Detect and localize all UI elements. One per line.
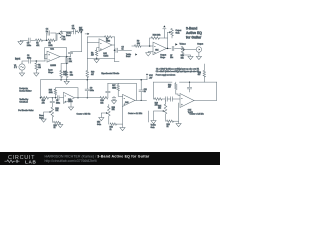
- wire MFB4 top edge: [154, 81, 217, 83]
- wire pot bottom ground: [183, 54, 191, 57]
- svg-text:Gain: Gain: [151, 127, 155, 129]
- wire R26 to gnd: [174, 120, 179, 122]
- wire C11 riser: [140, 80, 142, 101]
- label V1 1V: [14, 65, 18, 69]
- svg-text:−: −: [181, 98, 182, 100]
- capacitor C8: [57, 96, 59, 100]
- resistor R4: [36, 39, 43, 42]
- net flag arrow mid: [135, 53, 137, 55]
- svg-text:4k7: 4k7: [168, 87, 171, 89]
- capacitor C11: [139, 90, 143, 92]
- label C11 1u: [144, 89, 147, 93]
- label R9 10k: [137, 41, 140, 45]
- svg-text:10k: 10k: [100, 102, 103, 104]
- ground OA4 plus: [146, 53, 151, 56]
- svg-text:Stage: Stage: [48, 71, 53, 74]
- label C3 100n: [27, 43, 31, 47]
- wire MFB1 bias riser: [86, 58, 88, 80]
- svg-text:R10 100k: R10 100k: [153, 35, 161, 37]
- wire trim3 riser: [165, 101, 167, 105]
- ground port: [196, 56, 201, 59]
- svg-text:10k: 10k: [69, 61, 72, 63]
- wire R1 to ground: [35, 70, 37, 73]
- node OA4 out: [167, 48, 169, 50]
- wire trim1 riser: [51, 98, 53, 107]
- svg-text:10n: 10n: [72, 28, 75, 30]
- svg-text:100n: 100n: [56, 102, 60, 104]
- resistor R9 sum: [135, 45, 142, 48]
- svg-text:10k: 10k: [112, 109, 115, 111]
- label net Volume: [175, 43, 186, 45]
- wire MFB1 left edge: [86, 37, 88, 58]
- resistor R24: [110, 123, 117, 125]
- resistor R2: [65, 58, 68, 64]
- wire riser to treble row: [71, 32, 82, 57]
- label C7 10u: [170, 55, 173, 59]
- node divider mid: [66, 63, 67, 64]
- label R2 10k: [69, 59, 72, 63]
- label R26 1k: [167, 124, 170, 128]
- label R20 4k7: [198, 72, 201, 76]
- wire C7 to pot: [175, 47, 183, 49]
- wire V1 to ground: [21, 70, 23, 73]
- ground mid wiper: [99, 118, 104, 121]
- wire MFB1 bottom edge: [87, 57, 114, 59]
- svg-text:+: +: [124, 104, 125, 106]
- op-amp OA3a: [64, 92, 75, 103]
- svg-text:1k: 1k: [167, 126, 169, 128]
- label R16 10k: [100, 100, 103, 104]
- svg-text:1u: 1u: [144, 91, 146, 93]
- wire C12a drop: [113, 96, 115, 100]
- svg-text:Center = 1.1 kHz: Center = 1.1 kHz: [128, 112, 142, 115]
- svg-text:OA3: OA3: [125, 101, 128, 104]
- note verified by: [19, 98, 28, 103]
- wire U4 feedback left: [150, 38, 168, 48]
- potentiometer R12 volume: [181, 46, 184, 53]
- op-amp OA4 output: [153, 42, 167, 55]
- wire C9 riser: [86, 80, 88, 98]
- potentiometer R25 treble gain: [164, 104, 167, 121]
- label C4: [46, 29, 48, 33]
- arrow bass wiper: [44, 111, 52, 119]
- label Treble Gain: [151, 124, 156, 129]
- svg-text:Experimental Circuits: Experimental Circuits: [101, 72, 119, 75]
- potentiometer R6 treble: [60, 31, 63, 40]
- capacitor C15: [50, 101, 54, 103]
- net flag bus right: [146, 73, 154, 79]
- node C9 out: [87, 97, 88, 98]
- svg-text:HARRISON RICHTER (Karlee) / 3-: HARRISON RICHTER (Karlee) / 3-Band Activ…: [45, 155, 150, 159]
- svg-text:10k: 10k: [158, 108, 161, 110]
- label center mid: [128, 112, 142, 115]
- source V1: [19, 64, 25, 70]
- svg-text:TL072: TL072: [103, 55, 108, 57]
- node MFB2 in: [40, 97, 42, 99]
- svg-text:Power supply not shown: Power supply not shown: [156, 73, 175, 76]
- svg-text:C2 = 10nF (treble boost EQ); i: C2 = 10nF (treble boost EQ); input bypas…: [156, 70, 199, 73]
- resistor R3: [65, 71, 68, 78]
- svg-text:1u: 1u: [122, 49, 124, 51]
- wire sum node: [132, 45, 153, 47]
- capacitor C7 output: [172, 46, 174, 50]
- wire MFB1 bottom exit: [115, 61, 120, 63]
- op-amp OA5: [180, 94, 194, 108]
- wire bus: [41, 79, 148, 81]
- capacitor C12a: [112, 98, 116, 100]
- wire OA1 out: [60, 56, 71, 58]
- node buffer out: [66, 56, 68, 58]
- title Active EQ: [186, 31, 202, 35]
- svg-text:OA1: OA1: [50, 48, 54, 51]
- resistor R29 bias: [86, 71, 89, 78]
- wire R1 stem: [35, 61, 37, 63]
- arrow mid wiper: [101, 112, 107, 117]
- svg-text:1k: 1k: [54, 127, 56, 129]
- svg-text:LAB: LAB: [25, 159, 37, 164]
- svg-text:47k: 47k: [42, 102, 45, 104]
- ground below R1: [34, 73, 39, 76]
- resistor R17 riser: [117, 83, 123, 96]
- wire minus run: [176, 94, 180, 95]
- footer attribution text: [45, 155, 150, 164]
- svg-text:Output: Output: [197, 43, 203, 46]
- capacitor C6 out: [116, 48, 118, 52]
- capacitor C3: [29, 38, 31, 42]
- net flag arrow treble: [85, 33, 89, 35]
- svg-text:Center = 310 Hz: Center = 310 Hz: [77, 113, 91, 116]
- label R4 47k: [36, 43, 39, 47]
- svg-text:10k: 10k: [137, 43, 140, 45]
- capacitor C14: [187, 87, 191, 89]
- label OA3b TL072: [125, 101, 128, 104]
- label C5 10n: [72, 26, 75, 30]
- label OA5 TL072: [188, 109, 193, 114]
- label OA3a: [68, 98, 73, 103]
- svg-text:−: −: [49, 59, 50, 61]
- node MFB1 out: [114, 50, 116, 52]
- node A junction: [36, 60, 38, 62]
- wire MFB1 out exit: [115, 49, 132, 51]
- wire MFB1 top edge: [87, 36, 114, 38]
- wire R24 to gnd: [117, 123, 123, 125]
- svg-text:10k: 10k: [55, 110, 58, 112]
- svg-text:1 V: 1 V: [14, 67, 18, 69]
- label R25 10k: [158, 105, 161, 109]
- wire to treble pot wiper: [55, 33, 59, 40]
- supply flag VCC: [163, 25, 166, 38]
- ground treble wiper: [151, 121, 156, 124]
- svg-text:4k7: 4k7: [91, 74, 94, 76]
- svg-text:4k7: 4k7: [91, 55, 94, 57]
- op-amp OA3b: [123, 94, 136, 106]
- wire OA2 plus stub: [97, 48, 99, 50]
- label R5 100k: [48, 43, 52, 47]
- svg-text:100k: 100k: [63, 74, 67, 76]
- svg-text:−: −: [154, 46, 155, 48]
- label R1 1M: [38, 65, 41, 69]
- svg-text:100n: 100n: [27, 45, 31, 47]
- svg-text:4k7: 4k7: [198, 74, 201, 76]
- wire OA4 plus: [148, 52, 153, 53]
- wire treble row left: [21, 39, 36, 41]
- ground MFB1: [94, 58, 99, 62]
- wire R19 to caps: [162, 98, 180, 100]
- label R24 1k: [110, 127, 113, 131]
- svg-text:100k: 100k: [79, 30, 83, 32]
- node label Input: [15, 57, 20, 60]
- label R29 4k7: [91, 72, 94, 76]
- node bus C11: [140, 79, 142, 81]
- resistor R7 feedback: [105, 36, 113, 38]
- resistor R15 vertical: [54, 89, 56, 95]
- svg-text:100k: 100k: [112, 87, 116, 89]
- resistor R16: [100, 97, 108, 100]
- label C9 100n: [90, 88, 94, 92]
- op-amp OA1 buffer: [47, 51, 60, 62]
- resistor R18 top: [175, 82, 177, 94]
- svg-text:for Guitar: for Guitar: [186, 36, 202, 40]
- svg-text:100n: 100n: [90, 90, 94, 92]
- svg-text:+9V: +9V: [149, 77, 153, 79]
- svg-text:1M: 1M: [38, 67, 41, 69]
- wire trim2 riser: [108, 105, 110, 107]
- wire bias branch: [61, 64, 67, 80]
- svg-text:Stage: Stage: [160, 56, 165, 59]
- wire divider stem: [66, 57, 68, 80]
- capacitor C4 parallel: [48, 31, 50, 35]
- svg-text:For Electric Guitar: For Electric Guitar: [18, 109, 34, 112]
- svg-text:Center = 3.2 kHz: Center = 3.2 kHz: [190, 113, 204, 116]
- svg-text:Active EQ: Active EQ: [186, 31, 202, 35]
- potentiometer R11 gain: [171, 29, 174, 39]
- svg-text:1k: 1k: [110, 129, 112, 131]
- svg-text:+: +: [65, 101, 66, 103]
- wire feedback loop OA1: [45, 48, 67, 59]
- wire MFB3 top edge: [108, 82, 136, 84]
- label OA2 LM358: [103, 52, 108, 57]
- node bus R29: [87, 79, 89, 81]
- port Output circle: [196, 47, 201, 52]
- label R21 10k: [55, 108, 58, 112]
- node R8 bottom: [96, 58, 98, 60]
- wire trim3 vertical: [178, 103, 180, 124]
- node OA5 fb: [189, 82, 190, 83]
- node treble out: [81, 31, 82, 32]
- svg-text:OA4: OA4: [155, 48, 158, 51]
- label Mid Gain: [97, 122, 101, 126]
- wire MFB2 bottom lead: [41, 97, 64, 99]
- label R6 1M: [63, 36, 66, 40]
- capacitor C12: [166, 97, 168, 101]
- node C11 riser: [141, 100, 142, 101]
- capacitor C1: [29, 59, 31, 63]
- resistor R8 vertical: [95, 50, 97, 56]
- wire to buffer +: [45, 54, 47, 61]
- op-amp OA2: [99, 39, 112, 51]
- svg-text:10k: 10k: [70, 74, 73, 76]
- arrow treble wiper: [154, 110, 165, 120]
- wire MFB2 left edge: [40, 80, 42, 98]
- capacitor C13: [171, 97, 173, 101]
- label R17 100k: [112, 85, 116, 89]
- wire MFB1 right edge: [114, 37, 116, 62]
- svg-text:http://circuitlab.com/c37766t8: http://circuitlab.com/c37766t82br9/: [45, 159, 98, 163]
- label R13 47k: [42, 100, 45, 104]
- svg-text:CircuitLab: CircuitLab: [19, 101, 28, 104]
- node OA3a out: [77, 97, 78, 98]
- note design by: [19, 88, 31, 92]
- resistor R20 vertical: [203, 64, 205, 82]
- ground C12a: [111, 101, 116, 104]
- resistor R1: [35, 63, 38, 70]
- svg-text:47k: 47k: [36, 45, 39, 47]
- wire MFB3 right edge: [135, 83, 137, 100]
- svg-text:Band: Band: [66, 35, 70, 37]
- svg-text:10u: 10u: [170, 57, 173, 59]
- title for Guitar: [186, 36, 202, 40]
- resistor R13: [41, 97, 49, 100]
- potentiometer R23 mid gain: [108, 106, 111, 124]
- label R18 4k7: [168, 84, 171, 88]
- label OA1 bottom: [50, 65, 56, 67]
- label Output port: [197, 43, 203, 46]
- ground bass wiper: [41, 119, 46, 122]
- label center bass: [77, 113, 91, 116]
- svg-text:100k: 100k: [48, 45, 52, 47]
- resistor R10 feedback: [151, 37, 159, 40]
- wire treble row right: [62, 30, 77, 33]
- svg-text:+: +: [154, 52, 155, 54]
- label Treble Band: [66, 32, 71, 37]
- svg-text:1M: 1M: [63, 39, 66, 41]
- label R27 100k: [79, 27, 83, 31]
- arrow gain wiper: [168, 31, 172, 38]
- node trim1: [52, 97, 53, 98]
- wire OA5 out: [194, 82, 217, 100]
- wire MFB1 minus stub: [87, 41, 99, 43]
- ground below V1: [19, 73, 24, 76]
- node R15 bottom: [55, 97, 56, 98]
- wire stub mid: [148, 111, 150, 122]
- svg-text:+: +: [49, 54, 50, 56]
- wire OA3a plus ground: [70, 100, 72, 107]
- wire R4 to R5: [43, 39, 49, 41]
- label net treble: [126, 54, 131, 58]
- svg-text:LM358: LM358: [50, 65, 56, 67]
- notes block: [156, 67, 199, 76]
- label OA1 top: [50, 48, 54, 51]
- label R23 10k: [112, 107, 115, 111]
- ground trim3: [176, 124, 181, 127]
- label Bass Gain: [39, 115, 43, 119]
- wire V1 top: [22, 61, 28, 64]
- ground volume: [188, 56, 193, 59]
- wire port ground: [198, 52, 200, 56]
- label OA4: [155, 48, 158, 51]
- svg-text:−: −: [65, 96, 66, 98]
- wire MFB2 feedback: [55, 88, 78, 98]
- wire C14 riser: [189, 82, 191, 92]
- wire OA3a out: [75, 97, 101, 99]
- svg-text:3-Band: 3-Band: [186, 27, 197, 31]
- label Output Stage: [160, 54, 166, 59]
- svg-text:C1 = 100nF (soft/bass cut EQ);: C1 = 100nF (soft/bass cut EQ); input cap…: [156, 67, 199, 70]
- label R15 100k: [49, 90, 53, 94]
- label R7 100k: [106, 38, 110, 42]
- svg-text:Korrus Richter: Korrus Richter: [19, 89, 31, 92]
- footer bar: [0, 152, 220, 165]
- svg-text:Volume: Volume: [180, 44, 186, 46]
- resistor R19: [155, 98, 163, 101]
- svg-text:−: −: [100, 43, 101, 45]
- svg-text:LM358: LM358: [68, 101, 73, 103]
- ground trim2: [120, 128, 125, 131]
- wire parallel cap loop: [47, 33, 57, 40]
- label center treble: [190, 113, 204, 116]
- svg-text:Gain: Gain: [176, 32, 180, 34]
- note for electric guitar: [18, 109, 34, 112]
- label C1 100n: [27, 55, 31, 59]
- wire R22 gnd: [59, 122, 61, 124]
- capacitor C2 riser: [68, 52, 72, 54]
- wire MFB3 left edge: [107, 83, 109, 98]
- title 3-Band: [186, 27, 197, 31]
- arrow treble pot wiper: [59, 32, 61, 34]
- label R8 4k7: [91, 52, 94, 56]
- resistor R27 row: [77, 31, 82, 33]
- schematic canvas: [0, 0, 220, 165]
- ground treble left: [18, 40, 23, 45]
- svg-text:10k: 10k: [181, 57, 184, 59]
- resistor R28 bias: [60, 71, 63, 78]
- wire OA4 out: [167, 47, 172, 49]
- node treble parallel: [46, 39, 48, 41]
- wire MFB4 left edge: [154, 82, 155, 99]
- label C6 1u: [122, 46, 124, 50]
- svg-text:Gain: Gain: [97, 124, 101, 126]
- svg-text:+: +: [181, 104, 182, 106]
- label R19 47k: [155, 102, 158, 106]
- circuitlab logo: [5, 155, 37, 165]
- node R3 bus: [66, 79, 67, 80]
- resistor R22: [54, 121, 61, 123]
- wire C1 to R1 node: [31, 60, 45, 62]
- node bus R28: [60, 79, 62, 81]
- ground trim1: [58, 124, 63, 127]
- label R3 10k: [70, 72, 73, 76]
- label C8 100n: [56, 100, 60, 104]
- label Input Stage: [48, 69, 53, 74]
- resistor R5: [48, 39, 55, 42]
- node summing: [149, 45, 151, 47]
- svg-text:Input: Input: [15, 57, 20, 60]
- svg-text:−: −: [124, 98, 125, 100]
- svg-text:100n: 100n: [27, 58, 31, 60]
- label Output Gain pot: [176, 29, 182, 34]
- resistor R26: [167, 120, 174, 122]
- label R22 1k: [54, 125, 57, 129]
- svg-text:Gain: Gain: [39, 117, 43, 119]
- capacitor C10: [106, 91, 110, 93]
- capacitor C9: [85, 89, 89, 91]
- svg-text:+: +: [100, 48, 101, 50]
- capacitor C5: [74, 30, 76, 34]
- label R28 100k: [63, 72, 67, 76]
- wire OA2 out: [112, 44, 115, 46]
- svg-text:100k: 100k: [49, 92, 53, 94]
- wire OA3b out: [135, 99, 147, 101]
